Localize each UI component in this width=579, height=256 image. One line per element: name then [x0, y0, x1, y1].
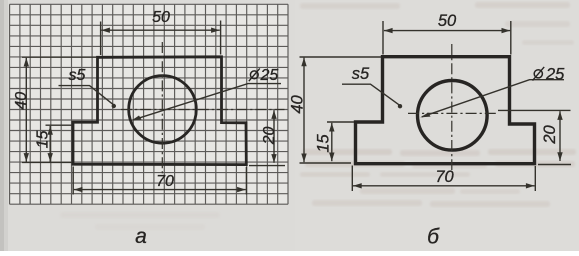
hole circle d25 (view a): [129, 76, 197, 144]
dim 70 extension lines (view a): [73, 167, 246, 195]
dim 15 line with arrows (view b): [331, 123, 333, 161]
grid lines (view a): [10, 4, 288, 204]
d25 leader with arrow (view a): [133, 84, 281, 120]
part outline (view a): [73, 57, 246, 165]
dim 40 extension lines (view b): [300, 57, 382, 163]
dim 40 extension lines (view a): [22, 57, 96, 162]
dim 15 line with arrows (view a): [49, 126, 51, 162]
svg-text:40: 40: [289, 95, 307, 114]
dim 50 line with arrows (view b): [384, 30, 510, 32]
scan left edge shadow: [0, 0, 4, 251]
d25 leader with arrow (view b): [422, 80, 564, 117]
svg-text:70: 70: [435, 168, 454, 186]
d25 symbol (view b): [534, 70, 542, 78]
dim 15 extension line (view b): [327, 121, 354, 123]
svg-text:25: 25: [545, 65, 565, 83]
dim 40 line with arrows (view a): [25, 58, 27, 162]
vertical centerline (view a): [161, 42, 163, 174]
svg-text:15: 15: [315, 134, 333, 153]
dim 20 extension lines (view b): [498, 110, 571, 164]
svg-text:20: 20: [541, 125, 559, 145]
s5 leader with dot (view b): [342, 84, 399, 105]
hole circle d25 (view b): [418, 81, 488, 151]
svg-text:50: 50: [152, 9, 170, 26]
faint bleed-through print: [302, 149, 392, 155]
dim 40 line with arrows (view b): [303, 58, 305, 163]
s5 leader with dot (view a): [59, 86, 114, 105]
svg-text:а: а: [135, 225, 147, 248]
dim 50 extension lines (view a): [101, 21, 221, 56]
horizontal centerline + ext for dim 20 (view a): [121, 109, 285, 111]
dim 20 bottom extension line (view a): [249, 165, 285, 167]
dim 20 line with arrows (view b): [559, 111, 561, 161]
svg-text:15: 15: [34, 131, 51, 149]
svg-text:25: 25: [260, 67, 279, 84]
d25 symbol (view a): [250, 71, 258, 79]
part outline (view b): [356, 57, 535, 164]
svg-text:б: б: [427, 226, 440, 249]
grid paper background (view a): [10, 4, 288, 204]
svg-text:s5: s5: [69, 67, 86, 84]
dim 50 extension lines (view b): [383, 21, 511, 55]
dim 15 extension line (view a): [46, 124, 72, 126]
svg-text:50: 50: [438, 12, 457, 30]
vertical centerline (view b): [451, 44, 453, 170]
svg-text:70: 70: [156, 173, 174, 190]
svg-text:20: 20: [261, 127, 278, 146]
dim 70 extension lines (view b): [352, 166, 535, 192]
svg-text:40: 40: [13, 92, 30, 110]
dim 50 line with arrows (view a): [101, 29, 220, 31]
svg-text:s5: s5: [352, 65, 370, 83]
dim 70 line with arrows (view b): [353, 185, 535, 187]
dim 70 line with arrows (view a): [74, 189, 246, 191]
horizontal centerline (view b): [408, 112, 497, 114]
dim 20 line with arrows (view a): [273, 110, 275, 163]
